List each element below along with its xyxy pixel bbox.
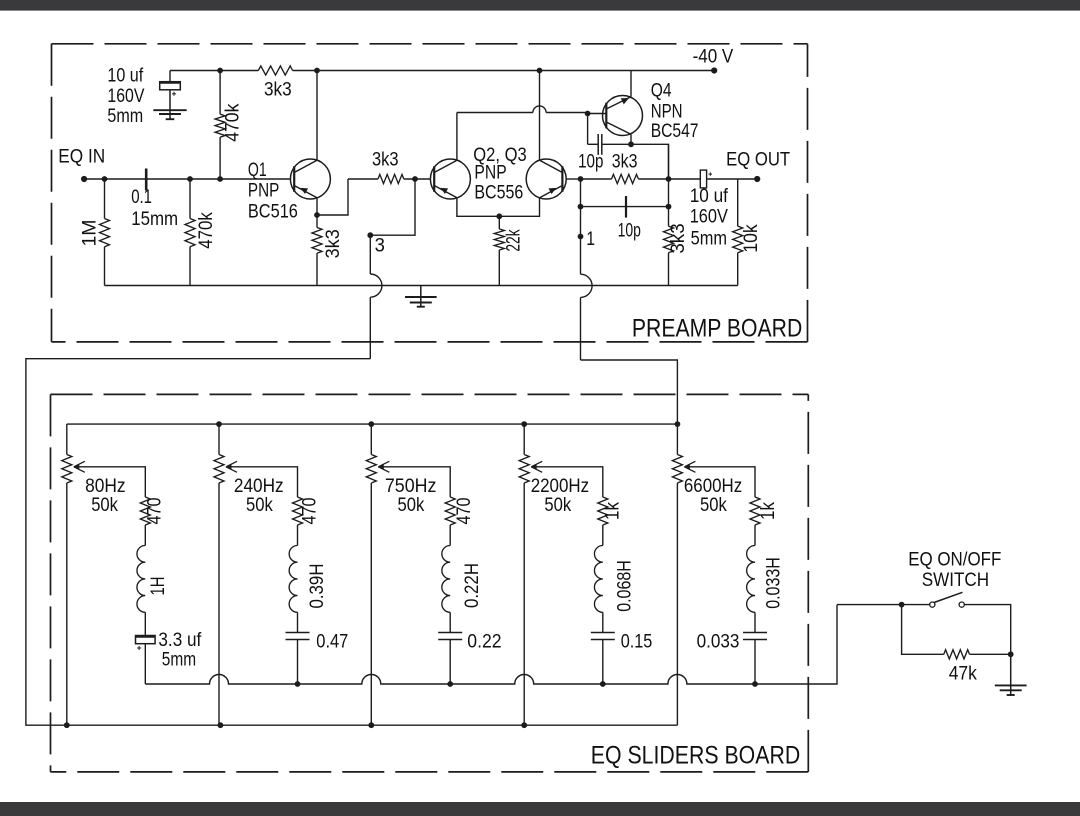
svg-text:PNP: PNP <box>474 161 506 183</box>
top frame bar <box>0 0 1080 11</box>
node output junction <box>666 176 672 182</box>
label 0.033H branch 5 (rotated) <box>762 557 784 609</box>
svg-text:10k: 10k <box>740 224 762 253</box>
wire branch collect line to switch <box>145 605 837 684</box>
node branch 5 at collect wire <box>752 681 758 687</box>
svg-text:1H: 1H <box>147 577 169 596</box>
svg-text:PREAMP BOARD: PREAMP BOARD <box>632 315 802 343</box>
label PREAMP BOARD <box>632 315 802 343</box>
wire node1 to eq rail <box>581 360 678 424</box>
wire Q1 collector <box>316 71 318 160</box>
resistor 1k branch 4 <box>598 497 608 546</box>
wiper arrow slider 3 <box>378 461 389 472</box>
svg-text:22k: 22k <box>503 229 525 251</box>
wire slider 1 tap to branch <box>76 467 146 497</box>
node 22k top junction <box>496 213 502 219</box>
svg-text:10 uf: 10 uf <box>690 185 729 207</box>
label 1 <box>586 228 595 250</box>
capacitor branch 2 <box>286 612 310 684</box>
svg-text:470k: 470k <box>195 212 217 249</box>
svg-text:3k3: 3k3 <box>264 79 292 101</box>
label 3k3 (Q1 emitter, rotated) <box>322 229 344 258</box>
resistor 470 branch 1 <box>140 497 150 546</box>
label 0.033 branch 5 <box>697 631 740 653</box>
transistor Q2 PNP BC556 <box>430 159 470 199</box>
node 1M top <box>102 176 108 182</box>
label EQ OUT <box>726 149 790 171</box>
label 3 <box>375 235 385 257</box>
label 1M (rotated) <box>78 219 100 246</box>
node branch 4 at collect wire <box>600 681 606 687</box>
transistor Q1 PNP BC516 <box>290 159 330 199</box>
resistor 10k <box>733 179 743 286</box>
svg-text:0.15: 0.15 <box>621 631 653 653</box>
node 3 <box>367 232 373 238</box>
label 10 uf 160V 5mm (input cap) <box>107 65 144 128</box>
node branch 2 at collect wire <box>295 681 301 687</box>
svg-text:5mm: 5mm <box>107 105 143 127</box>
svg-text:47k: 47k <box>949 662 977 684</box>
potentiometer slider 5 (6600Hz 50k) <box>672 424 682 725</box>
svg-text:1M: 1M <box>78 219 100 246</box>
label 47k <box>949 662 977 684</box>
wire slider 5 tap to branch <box>686 467 755 497</box>
label 0.47 branch 2 <box>316 631 348 653</box>
svg-text:15mm: 15mm <box>131 208 178 230</box>
resistor 22k <box>494 216 504 285</box>
potentiometer slider 4 (2200Hz 50k) <box>519 424 529 725</box>
capacitor 10p (Q4 base-emitter) <box>588 134 631 155</box>
capacitor branch 3 <box>438 612 462 684</box>
label 1k branch 4 (rotated) <box>602 502 624 520</box>
node 3k3-mid right junction <box>412 176 418 182</box>
label 470 branch 1 (rotated) <box>144 497 166 524</box>
svg-text:0.22H: 0.22H <box>461 563 483 608</box>
svg-text:160V: 160V <box>690 206 728 228</box>
wire to switch <box>837 604 930 606</box>
nodes slider bottoms at eq bottom rail <box>64 722 527 728</box>
label 10p (second) <box>618 220 641 242</box>
nodes sliders at eq top rail <box>216 421 680 427</box>
svg-text:Q1: Q1 <box>248 159 267 181</box>
node EQ IN terminal <box>81 176 87 182</box>
wire Q3 base <box>566 178 581 180</box>
wire 10p2 node line <box>581 206 669 208</box>
resistor 470 branch 2 <box>293 497 303 546</box>
wire preamp bottom rail <box>105 285 738 287</box>
label 3.3 uf 5mm <box>158 629 201 670</box>
svg-text:0.47: 0.47 <box>316 631 348 653</box>
svg-text:50k: 50k <box>91 494 118 516</box>
svg-text:50k: 50k <box>544 494 571 516</box>
ground under input 10uf cap <box>153 110 186 119</box>
svg-text:50k: 50k <box>700 494 727 516</box>
svg-text:470k: 470k <box>222 103 244 141</box>
label 6600Hz 50k slider 5 <box>684 475 742 516</box>
node Q4 emitter junction <box>628 141 634 147</box>
wire node 3 down with hop over rail <box>370 235 382 359</box>
wire Q2 collector to Q4 base (with hop) <box>457 106 588 160</box>
svg-text:5mm: 5mm <box>162 648 196 670</box>
node Q1 collector junction <box>314 68 320 74</box>
svg-text:EQ SLIDERS BOARD: EQ SLIDERS BOARD <box>591 742 800 770</box>
label 470 branch 3 (rotated) <box>453 497 475 524</box>
label EQ SLIDERS BOARD <box>591 742 800 770</box>
resistor 470k upper <box>215 71 225 180</box>
svg-text:0.22: 0.22 <box>467 631 501 653</box>
svg-text:1k: 1k <box>757 502 779 520</box>
node Q3 collector at rail <box>537 68 543 74</box>
svg-text:NPN: NPN <box>651 101 683 123</box>
label EQ ON/OFF SWITCH <box>908 548 1001 591</box>
resistor 1k branch 5 <box>750 497 760 546</box>
svg-text:0.39H: 0.39H <box>306 564 328 609</box>
label 3k3 (mid) <box>372 149 399 171</box>
capacitor branch 5 <box>743 612 767 684</box>
svg-text:1: 1 <box>586 228 595 250</box>
svg-text:3k3: 3k3 <box>612 151 638 173</box>
svg-text:3k3: 3k3 <box>372 149 399 171</box>
wire -40V top rail <box>170 70 714 72</box>
node -40V terminal <box>711 67 717 73</box>
wiper arrow slider 5 <box>684 461 695 472</box>
inductor 0.39H branch 2 <box>289 546 297 613</box>
wire Q3 collector to -40V rail <box>539 71 541 161</box>
resistor 3k3 top <box>258 66 292 75</box>
node upper-470k bottom junction <box>217 176 223 182</box>
svg-text:BC516: BC516 <box>248 201 298 223</box>
resistor 3k3 output vertical <box>664 144 674 285</box>
wiper arrow slider 4 <box>531 461 542 472</box>
svg-text:-40 V: -40 V <box>693 45 734 67</box>
svg-text:50k: 50k <box>398 494 425 516</box>
label 10k (rotated) <box>740 224 762 253</box>
label Q4 NPN BC547 <box>651 80 699 143</box>
resistor 470 branch 3 <box>445 497 455 546</box>
svg-text:50k: 50k <box>246 494 273 516</box>
label 1H branch 1 (rotated) <box>147 577 169 596</box>
wire Q2 Q3 emitters <box>457 198 540 216</box>
potentiometer slider 3 (750Hz 50k) <box>366 424 376 725</box>
resistor 3k3 mid (Q1 out) <box>348 174 430 183</box>
wire Q1 emitter to 3k3 mid <box>317 179 348 215</box>
label 3k3 (top) <box>264 79 292 101</box>
svg-text:BC547: BC547 <box>651 120 699 142</box>
label 0.22 branch 3 <box>467 631 501 653</box>
svg-text:0.033: 0.033 <box>697 631 740 653</box>
wire 47k left leg <box>902 605 944 655</box>
label 0.22H branch 3 (rotated) <box>461 563 483 608</box>
potentiometer slider 1 (80Hz 50k) <box>62 424 72 725</box>
label 3k3 (output vertical, rotated) <box>667 223 689 253</box>
label 470 branch 2 (rotated) <box>299 497 321 524</box>
svg-text:3: 3 <box>375 235 385 257</box>
inductor 1H branch 1 <box>137 546 145 613</box>
svg-text:1k: 1k <box>602 502 624 520</box>
wire eq top rail <box>67 423 678 425</box>
capacitor 10p (second, bar) <box>625 196 627 218</box>
label 0.39H branch 2 (rotated) <box>306 564 328 609</box>
svg-text:160V: 160V <box>107 85 144 107</box>
svg-text:470: 470 <box>144 497 166 524</box>
wire Q1 emitter to node <box>316 198 318 215</box>
capacitor 0.1 input (bar) <box>145 169 148 191</box>
wire node 3 to eq board bottom rail <box>26 359 678 726</box>
ground preamp rail <box>405 286 437 307</box>
svg-text:Q4: Q4 <box>651 80 672 102</box>
svg-text:10p: 10p <box>578 151 603 173</box>
svg-text:PNP: PNP <box>248 180 279 202</box>
wire slider 3 tap to branch <box>380 467 450 497</box>
label 0.15 branch 4 <box>621 631 653 653</box>
switch EQ ON/OFF (contacts and lever) <box>930 592 965 607</box>
capacitor 10uf input (electrolytic to ground) <box>160 71 181 111</box>
node EQ OUT terminal <box>754 176 760 182</box>
ground switch <box>995 654 1027 695</box>
node Q3 base junction <box>578 176 584 182</box>
eq sliders board dashed border <box>51 394 809 772</box>
svg-text:470: 470 <box>453 497 475 524</box>
inductor 0.22H branch 3 <box>442 546 450 613</box>
wire node3 jog <box>370 179 415 235</box>
svg-text:SWITCH: SWITCH <box>922 569 989 591</box>
svg-text:0.1: 0.1 <box>131 186 152 208</box>
capacitor branch 4 <box>591 612 615 684</box>
node Q4 base junction <box>585 111 591 117</box>
node 470k top junction <box>217 68 223 74</box>
node 470k lower top <box>187 176 193 182</box>
svg-text:470: 470 <box>299 497 321 524</box>
label Q2, Q3 PNP BC556 <box>473 144 526 203</box>
label 750Hz 50k slider 3 <box>385 475 437 516</box>
wire Q4 emitter to output node <box>631 144 669 179</box>
node 10p2 right <box>666 204 672 210</box>
wire node1 vertical with hop over rail <box>581 179 593 360</box>
svg-text:EQ ON/OFF: EQ ON/OFF <box>908 548 1001 570</box>
label Q1 PNP BC516 <box>248 159 298 223</box>
label 10p 3k3 (upper) <box>578 151 637 173</box>
node branch 3 at collect wire <box>447 681 453 687</box>
wire input to Q1 base <box>84 178 290 180</box>
resistor 3k3 output (horizontal) <box>581 174 701 183</box>
svg-text:10p: 10p <box>618 220 641 242</box>
preamp board dashed border <box>52 44 808 342</box>
capacitor 10uf output (electrolytic) <box>700 170 712 188</box>
label EQ IN <box>58 145 105 167</box>
inductor 0.033H branch 5 <box>747 546 755 613</box>
label -40 V <box>693 45 734 67</box>
svg-text:0.068H: 0.068H <box>614 560 636 612</box>
bottom frame bar <box>0 802 1080 816</box>
svg-text:10 uf: 10 uf <box>107 65 143 87</box>
node 1 <box>578 234 584 240</box>
label 1k branch 5 (rotated) <box>757 502 779 520</box>
wiper arrow slider 1 <box>74 461 85 472</box>
label 22k (rotated) <box>503 229 525 251</box>
node switch input junction <box>899 602 905 608</box>
wire Q4 base <box>588 113 607 115</box>
label 2200Hz 50k slider 4 <box>531 475 589 516</box>
wire Q4 emitter <box>630 134 632 144</box>
label 240Hz 50k slider 2 <box>234 475 284 516</box>
label 10 uf 160V 5mm (output cap) <box>690 185 729 250</box>
node 10p2 left <box>578 204 584 210</box>
wire Q4 base down to 10p <box>587 114 589 145</box>
resistor 470k lower <box>185 179 195 286</box>
resistor 3k3 Q1 emitter <box>312 215 322 286</box>
label 80Hz 50k slider 1 <box>85 475 126 516</box>
potentiometer slider 2 (240Hz 50k) <box>214 424 224 725</box>
svg-text:5mm: 5mm <box>691 228 727 250</box>
inductor 0.068H branch 4 <box>594 546 602 613</box>
resistor 47k <box>944 650 1011 659</box>
svg-text:3k3: 3k3 <box>667 223 689 253</box>
wire slider 4 tap to branch <box>533 467 603 497</box>
wiper arrow slider 2 <box>226 461 237 472</box>
node 47k right junction <box>1008 651 1014 657</box>
transistor Q3 PNP BC556 <box>526 159 566 199</box>
wire slider 2 tap to branch <box>228 467 298 497</box>
transistor Q4 NPN BC547 <box>603 96 643 136</box>
node Q1 emitter junction <box>314 212 320 218</box>
capacitor 3.3 uf 5mm branch 1 <box>136 612 156 684</box>
wire switch to ground leg <box>964 605 1010 655</box>
wire output cap to EQ OUT <box>707 178 758 180</box>
label 0.068H branch 4 (rotated) <box>614 560 636 612</box>
label 0.1 15mm <box>131 186 178 230</box>
resistor 1M <box>100 179 110 286</box>
label 470k (upper, rotated) <box>222 103 244 141</box>
svg-text:BC556: BC556 <box>474 181 523 203</box>
svg-text:EQ IN: EQ IN <box>58 145 105 167</box>
svg-text:EQ OUT: EQ OUT <box>726 149 790 171</box>
svg-text:0.033H: 0.033H <box>762 557 784 609</box>
wire Q4 collector to rail <box>630 71 632 97</box>
svg-text:3k3: 3k3 <box>322 229 344 258</box>
label 470k (lower, rotated) <box>195 212 217 249</box>
